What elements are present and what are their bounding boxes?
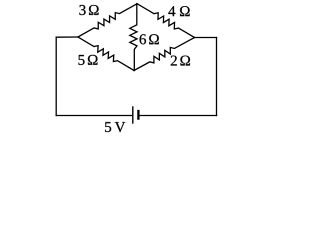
- resistor R1 3ohm (left node to top node): [78, 4, 137, 37]
- wire: top-right corner to right node: [195, 37, 217, 39]
- value label 4 ohm: [168, 6, 189, 16]
- resistor R3 5ohm (left node to bottom node): [78, 37, 134, 71]
- resistor R5 6ohm (vertical, top node to bottom node): [130, 4, 137, 71]
- value label 2 ohm: [171, 56, 190, 66]
- wire: battery negative plate to bottom-right corner: [138, 115, 216, 117]
- wire: bottom left horizontal to battery positive plate: [56, 115, 133, 117]
- resistor R4 2ohm (bottom node to right node): [134, 38, 195, 71]
- battery V1 short negative plate: [137, 111, 139, 119]
- wire: right side vertical: [216, 38, 218, 116]
- value label 6 ohm: [140, 34, 159, 44]
- value label 5 ohm: [79, 55, 98, 65]
- value label 3 ohm: [79, 5, 98, 15]
- wire: left node to top-left corner: [56, 36, 78, 38]
- battery V1 long positive plate: [132, 107, 134, 123]
- value label 5 V: [105, 122, 125, 132]
- wire: left side vertical: [55, 37, 57, 115]
- resistor R2 4ohm (top node to right node): [137, 4, 195, 38]
